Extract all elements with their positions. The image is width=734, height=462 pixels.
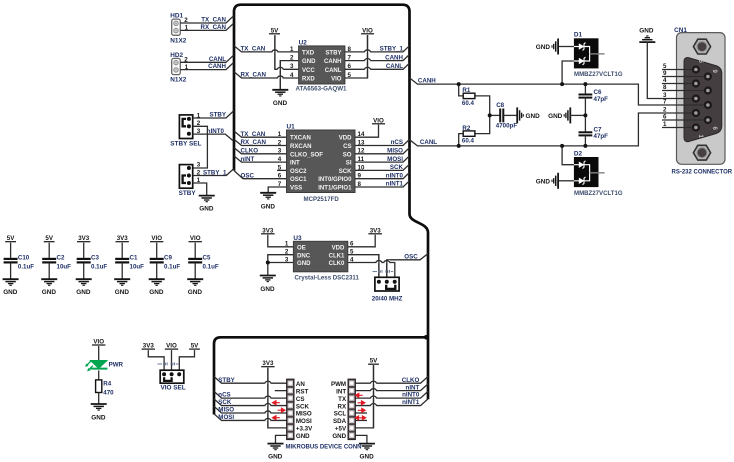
- svg-text:MCP2517FD: MCP2517FD: [304, 196, 340, 203]
- wire STBY_1 from STBY pin2 to boundary: [193, 169, 234, 176]
- red arrow MISO: [278, 408, 285, 412]
- capacitor C1 group: [114, 235, 144, 296]
- svg-text:CANH: CANH: [324, 59, 341, 65]
- wire TX_CAN from boundary to U1 pin1: [234, 131, 287, 137]
- svg-text:4700pF: 4700pF: [496, 123, 518, 130]
- hops of left wires over 3V3 vertical: [265, 381, 271, 384]
- header HD2 body: [172, 58, 181, 74]
- wire nINT from boundary to U1 pin4: [234, 156, 287, 162]
- svg-text:GND: GND: [42, 289, 57, 296]
- wire CLKO from boundary to PWM: [355, 377, 428, 384]
- U2 pin numbers: [290, 46, 351, 79]
- capacitor C10 group: [3, 235, 35, 296]
- svg-text:CANL: CANL: [420, 139, 437, 146]
- U3 pin numbers: [285, 241, 354, 264]
- IC U2 body ATA6563-GAQW1: [299, 46, 345, 84]
- svg-text:MISO: MISO: [387, 148, 403, 155]
- svg-text:47pF: 47pF: [594, 96, 609, 103]
- svg-text:OSC1: OSC1: [290, 177, 307, 183]
- svg-text:N1X2: N1X2: [170, 37, 186, 44]
- svg-text:GND: GND: [260, 286, 275, 293]
- wire R4 to ground: [98, 393, 100, 405]
- ground below R4: [91, 404, 107, 410]
- svg-text:7: 7: [278, 181, 282, 188]
- svg-text:60.4: 60.4: [462, 138, 475, 145]
- capacitor C6: [579, 84, 593, 115]
- wire MOSI from U1 pin11 to boundary: [355, 156, 410, 162]
- CN1 pin circles: [692, 65, 712, 131]
- svg-text:CS: CS: [343, 144, 351, 150]
- resistor R2: [459, 115, 490, 145]
- svg-text:GND: GND: [332, 433, 346, 440]
- power label 5V above right header: [368, 358, 379, 365]
- capacitor C3 group: [76, 235, 108, 296]
- svg-text:1: 1: [663, 121, 667, 128]
- wire RX_CAN from boundary to U1 pin2: [234, 139, 287, 145]
- wire D2 upper terminal to CANL rail: [562, 146, 574, 165]
- svg-text:VIO SEL: VIO SEL: [161, 385, 186, 392]
- wire STBY from boundary to AN: [214, 377, 287, 384]
- stub U1 pin5 OSC2: [277, 169, 287, 171]
- ground left of D2: [552, 173, 558, 189]
- power label 3V3 above left header: [261, 360, 274, 367]
- capacitor C7: [579, 115, 593, 145]
- wire U2 pin3 VCC to 5V: [275, 35, 299, 69]
- svg-text:4: 4: [278, 156, 282, 163]
- wire CANH from HD2 pin1 to boundary: [180, 63, 233, 70]
- header HD1 body: [172, 19, 181, 35]
- hops of right wires over 5V vertical: [370, 381, 376, 384]
- CN1 pin stubs: [662, 70, 704, 128]
- svg-text:GND: GND: [3, 289, 18, 296]
- svg-text:STBY SEL: STBY SEL: [170, 140, 201, 147]
- junction R1 on CANH rail: [457, 82, 461, 86]
- svg-text:RXCAN: RXCAN: [290, 144, 312, 150]
- redraw 5V vertical over hop: [274, 36, 276, 69]
- svg-text:+5V: +5V: [335, 426, 347, 433]
- ground left of D1: [552, 39, 558, 55]
- wire VIO to VIO SEL pin2: [171, 350, 173, 371]
- wire U1 pin14 VDD to VIO: [355, 125, 379, 138]
- ground above CN1: [639, 36, 655, 42]
- svg-text:SO: SO: [343, 152, 352, 158]
- wire 3V3 down to +3.3V pin: [268, 368, 287, 428]
- wire U1 pin7 VSS to ground: [268, 187, 286, 193]
- junction D1 on CANH rail: [560, 82, 564, 86]
- svg-text:GND: GND: [188, 289, 203, 296]
- svg-text:60.4: 60.4: [462, 100, 475, 107]
- svg-text:47pF: 47pF: [594, 133, 609, 140]
- wire U2 pin2 GND down to ground: [280, 61, 298, 90]
- svg-text:SCK: SCK: [339, 169, 352, 175]
- svg-text:MOSI: MOSI: [296, 418, 312, 425]
- svg-text:D2: D2: [574, 150, 583, 157]
- diode D1 body MMBZ27VCLT1G: [574, 38, 605, 68]
- junction C6/C7 midpoint: [583, 113, 587, 117]
- svg-text:GND: GND: [76, 289, 91, 296]
- svg-text:0.1uF: 0.1uF: [91, 263, 107, 270]
- svg-text:0.1uF: 0.1uF: [203, 263, 219, 270]
- svg-text:CANL: CANL: [386, 63, 403, 70]
- junction C8/R1/R2: [488, 113, 492, 117]
- wire STBY pin1 to ground: [193, 183, 207, 196]
- power label VIO above LED: [92, 339, 105, 346]
- ground below left header: [268, 444, 284, 450]
- wire from ground to C6/C7 midpoint: [570, 114, 585, 116]
- module boundary lower section: top edge and left edge: [214, 337, 428, 414]
- right header pin names: [331, 381, 347, 440]
- svg-text:GND: GND: [268, 454, 283, 461]
- IC U1 body MCP2517FD: [287, 130, 356, 193]
- svg-text:CLKO: CLKO: [402, 377, 420, 384]
- capacitor C9 group: [149, 235, 181, 296]
- svg-text:VIO: VIO: [331, 77, 342, 83]
- hop of CLK0 wire over OSC drop: [384, 260, 390, 263]
- svg-text:VCC: VCC: [302, 68, 315, 74]
- IC U3 body DSC2311: [293, 241, 347, 271]
- junction DNC/GND: [266, 261, 270, 265]
- svg-text:C2: C2: [57, 254, 65, 261]
- svg-text:GND: GND: [536, 44, 551, 51]
- svg-text:nINT: nINT: [406, 384, 420, 391]
- svg-text:7: 7: [663, 99, 667, 106]
- wire 3V3 to VIO SEL pin1: [148, 350, 164, 371]
- svg-text:3: 3: [197, 162, 201, 169]
- svg-text:8: 8: [663, 84, 667, 91]
- svg-text:+3.3V: +3.3V: [296, 426, 313, 433]
- svg-text:CN1: CN1: [674, 27, 687, 34]
- junction D2 on CANL rail: [560, 144, 564, 148]
- svg-text:PWR: PWR: [109, 361, 124, 368]
- capacitor C5 group: [187, 235, 219, 296]
- svg-text:C3: C3: [91, 254, 99, 261]
- svg-text:CANH: CANH: [418, 77, 436, 84]
- wire nINT from boundary to INT: [355, 384, 428, 391]
- svg-text:N1X2: N1X2: [170, 77, 186, 84]
- svg-text:MIKROBUS DEVICE CONN: MIKROBUS DEVICE CONN: [286, 445, 362, 451]
- svg-text:SCL: SCL: [334, 411, 347, 418]
- svg-text:GND: GND: [639, 27, 654, 34]
- wire OSC from boundary to 20/40 jumper pin2: [387, 254, 428, 282]
- svg-text:5: 5: [663, 63, 667, 70]
- resistor R4: [96, 380, 102, 393]
- wire 5V to VIO SEL pin3: [179, 350, 194, 371]
- wire nCS from U1 pin13 to boundary: [355, 139, 410, 145]
- svg-text:10uF: 10uF: [130, 263, 145, 270]
- svg-text:SDA: SDA: [333, 418, 347, 425]
- svg-text:CANL: CANL: [325, 68, 342, 74]
- module boundary upper section: left edge: [234, 5, 241, 171]
- svg-text:MMBZ27VCLT1G: MMBZ27VCLT1G: [574, 190, 623, 197]
- svg-text:GND: GND: [115, 289, 130, 296]
- wire nINT0 from U1 pin9 to boundary: [355, 173, 410, 179]
- wire LED cathode to R4: [98, 370, 100, 380]
- svg-text:INT: INT: [290, 161, 300, 167]
- svg-text:5: 5: [278, 164, 282, 171]
- svg-text:RST: RST: [296, 388, 309, 395]
- capacitor C8: [490, 109, 518, 123]
- junction R2 on CANL rail: [457, 144, 461, 148]
- svg-text:6: 6: [278, 173, 282, 180]
- svg-text:VSS: VSS: [290, 186, 302, 192]
- svg-text:C10: C10: [18, 254, 30, 261]
- power label VIO: [165, 343, 178, 350]
- svg-text:C8: C8: [496, 102, 504, 109]
- svg-text:TXCAN: TXCAN: [290, 136, 311, 142]
- wire CANH rail from boundary to DB9: [410, 78, 663, 105]
- wire U2 pin3 VCC hop over GND drop: [277, 67, 283, 70]
- svg-text:GND: GND: [302, 59, 316, 65]
- jumper position marks: [158, 362, 179, 365]
- svg-text:20/40 MHZ: 20/40 MHZ: [372, 296, 403, 303]
- svg-text:3: 3: [278, 148, 282, 155]
- svg-text:GND: GND: [548, 113, 563, 120]
- svg-text:VDD: VDD: [332, 245, 345, 251]
- red arrow INT: [356, 393, 363, 397]
- U1 pin numbers: [278, 131, 365, 188]
- CN1 rotated pin digits: [697, 60, 717, 139]
- svg-text:PWM: PWM: [331, 381, 346, 388]
- svg-text:VDD: VDD: [339, 136, 352, 142]
- svg-text:MISO: MISO: [296, 411, 312, 418]
- svg-text:GND: GND: [199, 206, 214, 213]
- svg-text:STBY: STBY: [218, 377, 235, 384]
- svg-text:MOSI: MOSI: [218, 414, 234, 421]
- wire MISO from boundary to MISO: [214, 406, 287, 413]
- jumper VIO SEL body: [160, 370, 184, 383]
- wire CLKO from boundary to U1 pin3: [234, 148, 287, 154]
- svg-text:CLK1: CLK1: [329, 253, 345, 259]
- stub RST: [275, 390, 287, 392]
- wire U2 pin4 RXD hop over GND drop: [277, 75, 283, 78]
- diode D2 body MMBZ27VCLT1G: [574, 157, 605, 187]
- svg-text:2: 2: [285, 249, 289, 256]
- wire GND pin left header to ground: [276, 435, 287, 443]
- wire ground to CN1 pin3: [647, 42, 662, 98]
- wire D1 lower terminal to CANH rail: [562, 61, 574, 84]
- wire U3 pin5 CLK1 down to 20/40 jumper pin1: [348, 255, 379, 282]
- jumper STBY body: [179, 165, 192, 189]
- svg-text:INT0/GPIO0: INT0/GPIO0: [318, 177, 352, 183]
- svg-text:U2: U2: [299, 40, 308, 47]
- svg-text:CANL: CANL: [209, 56, 226, 63]
- svg-text:ATA6563-GAQW1: ATA6563-GAQW1: [296, 86, 348, 93]
- svg-text:nINT1: nINT1: [386, 181, 404, 188]
- stub SDA: [355, 419, 367, 421]
- stub SCL: [355, 412, 367, 414]
- wire RX_CAN from HD1 pin1 to boundary: [180, 23, 233, 30]
- wire STBY from STBY SEL pin1 to boundary: [193, 111, 234, 118]
- svg-text:GND: GND: [273, 100, 288, 107]
- wire TX_CAN from boundary to U2 pin1: [234, 46, 299, 52]
- wire VIO to LED anode: [98, 346, 100, 360]
- power label 5V above U2: [269, 27, 280, 34]
- svg-text:nCS: nCS: [218, 392, 230, 399]
- svg-text:Crystal-Less DSC2311: Crystal-Less DSC2311: [295, 275, 360, 282]
- svg-text:GND: GND: [149, 289, 164, 296]
- svg-text:TX_CAN: TX_CAN: [201, 17, 226, 24]
- redraw 3V3 vertical over hops: [267, 368, 269, 428]
- wire ground to D2 lower terminal: [558, 180, 574, 182]
- ground below U3: [260, 276, 276, 282]
- svg-text:SCK: SCK: [218, 399, 232, 406]
- power label 3V3 left of U3: [261, 227, 275, 234]
- svg-text:4: 4: [663, 77, 667, 84]
- wire nCS from boundary to CS: [214, 391, 287, 398]
- svg-text:CANH: CANH: [208, 63, 226, 70]
- red arrow TX: [358, 401, 365, 405]
- svg-text:INT1/GPIO1: INT1/GPIO1: [318, 186, 352, 192]
- svg-text:1: 1: [290, 46, 294, 53]
- wire nINT0 from boundary to TX: [355, 391, 428, 398]
- wire SCK from U1 pin10 to boundary: [355, 164, 410, 170]
- wire ground to D1 upper terminal: [558, 46, 574, 48]
- svg-text:U1: U1: [287, 124, 296, 131]
- junction C6 on CANH rail: [583, 82, 587, 86]
- svg-text:STBY: STBY: [179, 190, 197, 197]
- svg-text:D1: D1: [574, 32, 583, 39]
- wire from STBY SEL pin2 down to STBY pin3: [193, 126, 208, 168]
- svg-text:470: 470: [103, 390, 114, 397]
- hop of TX_CAN wire over 5V vertical: [272, 49, 278, 52]
- power label 3V3 right of U3: [368, 227, 382, 234]
- svg-text:C1: C1: [130, 254, 138, 261]
- svg-text:nINT1: nINT1: [402, 399, 420, 406]
- capacitor C2 group: [41, 235, 71, 296]
- svg-text:R1: R1: [462, 87, 470, 94]
- svg-text:CS: CS: [296, 396, 305, 403]
- wire SCK from boundary to SCK: [214, 399, 287, 406]
- svg-text:R4: R4: [103, 381, 111, 388]
- svg-text:0.1uF: 0.1uF: [164, 263, 180, 270]
- svg-text:SI: SI: [346, 161, 352, 167]
- wire U2 pin5 VIO up to VIO label: [345, 35, 368, 78]
- svg-text:0.1uF: 0.1uF: [18, 263, 34, 270]
- svg-text:nINT0: nINT0: [386, 172, 404, 179]
- hop of CLK0 wire over CLK1 drop: [376, 260, 382, 263]
- jumper STBY SEL body: [179, 115, 192, 139]
- svg-text:R2: R2: [462, 125, 470, 132]
- svg-text:STBY_1: STBY_1: [203, 169, 227, 176]
- left header pin names: [296, 381, 313, 440]
- wire U3 pin6 VDD to 3V3: [348, 235, 375, 247]
- svg-text:GND: GND: [526, 113, 541, 120]
- LED PWR: [85, 360, 107, 371]
- hops of STBY_1/CANH/CANL wires over VIO vertical: [364, 49, 370, 52]
- redraw VIO vertical over hops: [367, 35, 369, 78]
- red arrow MOSI: [273, 416, 280, 420]
- svg-text:4: 4: [290, 72, 294, 79]
- wire nINT0 from STBY SEL pin3 to boundary: [193, 134, 233, 140]
- power label VIO above U1: [372, 117, 385, 124]
- wire OSC from boundary end to U1 pin6: [234, 171, 286, 179]
- svg-text:nINT0: nINT0: [207, 128, 225, 135]
- svg-text:MMBZ27VCLT1G: MMBZ27VCLT1G: [574, 71, 623, 78]
- svg-text:GND: GND: [91, 414, 106, 421]
- svg-text:HD2: HD2: [170, 52, 183, 59]
- ground below STBY: [199, 196, 215, 202]
- wire U3 pin3 GND to ground: [268, 263, 294, 276]
- svg-text:2: 2: [278, 139, 282, 146]
- svg-text:RX_CAN: RX_CAN: [201, 24, 227, 31]
- wire TX_CAN from HD1 pin2 to boundary: [180, 16, 233, 23]
- red arrow CS: [273, 401, 280, 405]
- svg-text:CLK0: CLK0: [329, 261, 345, 267]
- wire CANL from U2 pin6 to boundary: [345, 63, 410, 69]
- svg-text:CLKO_SOF: CLKO_SOF: [290, 152, 323, 158]
- jumper position marks: [373, 270, 394, 273]
- svg-text:GND: GND: [296, 433, 310, 440]
- CN1 pin numbers: [663, 63, 667, 128]
- svg-text:2: 2: [663, 107, 667, 114]
- svg-text:6: 6: [663, 114, 667, 121]
- wire nINT1 from U1 pin8 to boundary: [355, 181, 410, 187]
- jumper 20/40 MHZ body: [375, 277, 399, 291]
- svg-text:GND: GND: [261, 203, 276, 210]
- svg-text:TXD: TXD: [302, 50, 315, 56]
- wire U3 pin2 DNC to ground join: [268, 255, 294, 263]
- mikroBUS left header body: [287, 379, 294, 440]
- wire U3 pin4 CLK0 to 20/40 jumper pin3: [348, 263, 395, 282]
- svg-text:MISO: MISO: [218, 407, 234, 414]
- svg-text:nCS: nCS: [391, 139, 403, 146]
- wire STBY_1 from U2 pin8 to boundary: [345, 46, 410, 52]
- module boundary upper section: top edge and right edge: [241, 5, 428, 400]
- wire CANL rail from boundary to DB9: [410, 113, 663, 146]
- svg-text:nINT0: nINT0: [402, 392, 420, 399]
- svg-text:GND: GND: [536, 178, 551, 185]
- svg-text:OE: OE: [297, 245, 306, 251]
- wire 3V3 to U3 pin1 OE: [268, 235, 294, 247]
- svg-text:10uF: 10uF: [57, 263, 72, 270]
- junction where boundary sections meet: [424, 335, 429, 340]
- ground left of C6/C7 midpoint: [564, 107, 570, 123]
- svg-text:GND: GND: [297, 261, 311, 267]
- svg-text:INT: INT: [336, 388, 346, 395]
- svg-text:TX: TX: [338, 396, 347, 403]
- svg-text:OSC2: OSC2: [290, 169, 307, 175]
- redraw 5V vertical over hops: [373, 365, 375, 428]
- wire RX_CAN from boundary to U2 pin4: [234, 72, 299, 78]
- svg-text:GND: GND: [360, 454, 375, 461]
- svg-text:SCK: SCK: [390, 164, 404, 171]
- svg-text:CANH: CANH: [385, 54, 403, 61]
- ground right of C8: [517, 107, 523, 123]
- wire MISO from U1 pin12 to boundary: [355, 148, 410, 154]
- svg-text:MOSI: MOSI: [387, 156, 403, 163]
- resistor R1: [459, 84, 490, 115]
- wire CANH from U2 pin7 to boundary: [345, 54, 410, 60]
- mikroBUS right header body: [348, 379, 355, 440]
- svg-text:SCK: SCK: [296, 403, 310, 410]
- svg-text:9: 9: [663, 70, 667, 77]
- wire nINT1 from boundary to RX: [355, 399, 428, 406]
- redraw GND drop vertical over hops: [279, 61, 281, 90]
- svg-text:1: 1: [285, 241, 289, 248]
- svg-text:U3: U3: [293, 235, 302, 242]
- red arrow SDA double: [355, 416, 365, 420]
- red arrow RX: [358, 408, 365, 412]
- svg-text:STBY: STBY: [325, 50, 341, 56]
- ground below U2: [272, 90, 288, 96]
- svg-text:3: 3: [285, 256, 289, 263]
- svg-text:RS-232 CONNECTOR: RS-232 CONNECTOR: [672, 170, 733, 176]
- svg-text:RX: RX: [337, 403, 346, 410]
- ground below U1: [260, 193, 276, 199]
- svg-text:HD1: HD1: [170, 13, 183, 20]
- wire 5V down to +5V pin: [355, 365, 373, 428]
- power label 3V3: [142, 343, 155, 350]
